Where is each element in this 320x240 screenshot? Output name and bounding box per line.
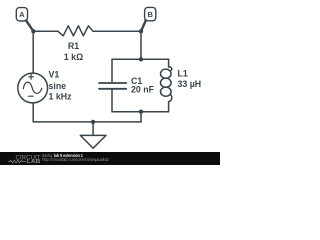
- node B: [141, 7, 156, 31]
- wire LC top rail: [112, 58, 169, 60]
- wire left branch: [32, 31, 34, 73]
- svg-text:B: B: [147, 10, 153, 19]
- junction at B: [139, 29, 143, 33]
- wire right branch upper: [140, 31, 142, 59]
- svg-text:20 nF: 20 nF: [131, 85, 155, 95]
- capacitor C1: [99, 59, 155, 111]
- svg-text:1 kHz: 1 kHz: [49, 92, 73, 102]
- junction ground: [91, 120, 95, 124]
- CircuitLab logo: [8, 154, 41, 165]
- wire below V1: [32, 103, 34, 122]
- svg-text:V1: V1: [49, 70, 60, 80]
- ground: [80, 122, 106, 148]
- wire top left: [33, 30, 58, 32]
- junction dots: [31, 29, 143, 124]
- junction at A: [31, 29, 35, 33]
- junction LC bottom: [139, 110, 143, 114]
- svg-text:LAB: LAB: [27, 159, 41, 165]
- wire LC bottom rail: [112, 111, 169, 113]
- svg-text:1 kΩ: 1 kΩ: [64, 52, 83, 62]
- resistor R1: [58, 26, 93, 62]
- voltage source V1: [18, 70, 72, 103]
- svg-text:33 µH: 33 µH: [178, 79, 202, 89]
- wire top right: [93, 30, 141, 32]
- svg-text:A: A: [19, 10, 25, 19]
- svg-text:R1: R1: [68, 41, 79, 51]
- svg-text:http://circuitlab.com/cme44/oe: http://circuitlab.com/cme44/oeqauak4z: [42, 157, 109, 162]
- wire stub to bottom: [140, 112, 142, 122]
- footer bar: [0, 152, 220, 165]
- inductor L1: [161, 59, 202, 111]
- junction LC top: [139, 57, 143, 61]
- svg-text:sine: sine: [49, 81, 67, 91]
- footer title text: [42, 153, 109, 162]
- node A: [16, 8, 33, 32]
- svg-text:L1: L1: [178, 68, 188, 78]
- wire bottom: [33, 121, 141, 123]
